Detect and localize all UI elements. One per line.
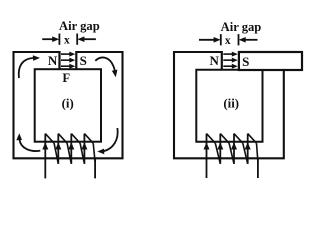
label F force (i) [62,71,70,85]
winding lead right (ii) [257,158,259,178]
dimension arrow right (ii) [239,37,258,43]
turn 4 conductor [83,134,85,164]
flux arrow top-right (i) [95,57,117,77]
pole label S (i) [80,53,87,68]
turn 4 conductor [247,134,249,164]
air gap left face (ii) [221,51,223,71]
turn 1 conductor [44,134,46,179]
svg-text:x: x [64,34,70,46]
air gap left face (i) [58,51,60,70]
svg-text:S: S [80,53,87,68]
dimension arrow right (i) [77,36,96,42]
core (i) window [35,69,101,142]
armature bar with S pole (ii) [239,52,302,70]
winding lead right (i) [94,158,96,178]
label "Air gap" (ii) [221,20,262,34]
dimension tick left (ii) [220,34,222,45]
svg-text:N: N [210,53,220,68]
core (i) outer boundary [14,52,123,158]
dimension arrow left (i) [42,36,59,42]
turn 3 conductor [233,134,235,164]
label x (ii) [225,35,231,47]
pole label S (ii) [242,54,249,69]
svg-text:x: x [225,35,231,47]
svg-text:N: N [48,53,58,68]
pole label N (i) [48,53,58,68]
label (ii) [223,97,239,111]
turn 1 conductor [206,134,208,178]
svg-text:(ii): (ii) [223,97,239,111]
svg-text:F: F [62,71,70,85]
svg-text:S: S [242,54,249,69]
label "Air gap" (i) [59,19,100,33]
turn 2 conductor [219,134,221,164]
turn 2 conductor [57,134,59,164]
svg-text:Air gap: Air gap [221,20,262,34]
flux arrow top-left (i) [19,55,40,78]
flux arrow bottom-left (i) [16,133,40,151]
turn 3 conductor [70,134,72,164]
winding on bottom limb (i): 4 turns with current arrows [42,134,95,179]
air gap right face (i) [75,51,77,70]
winding on bottom limb (ii): 4 turns with current arrows [204,134,258,178]
svg-text:Air gap: Air gap [59,19,100,33]
dimension tick left (i) [58,34,60,45]
label (i) [62,96,74,110]
flux arrows across gap (i) [61,52,75,69]
svg-text:(i): (i) [62,96,74,110]
flux arrows across gap (ii) [223,52,238,69]
core (ii) window [196,70,262,142]
dimension tick right (i) [76,34,78,45]
core (ii) yoke outline [174,52,284,158]
dimension tick right (ii) [238,34,240,45]
flux arrow bottom-right (i) [97,128,117,154]
label x (i) [64,34,70,46]
dimension arrow left (ii) [199,37,221,43]
pole label N (ii) [210,53,220,68]
